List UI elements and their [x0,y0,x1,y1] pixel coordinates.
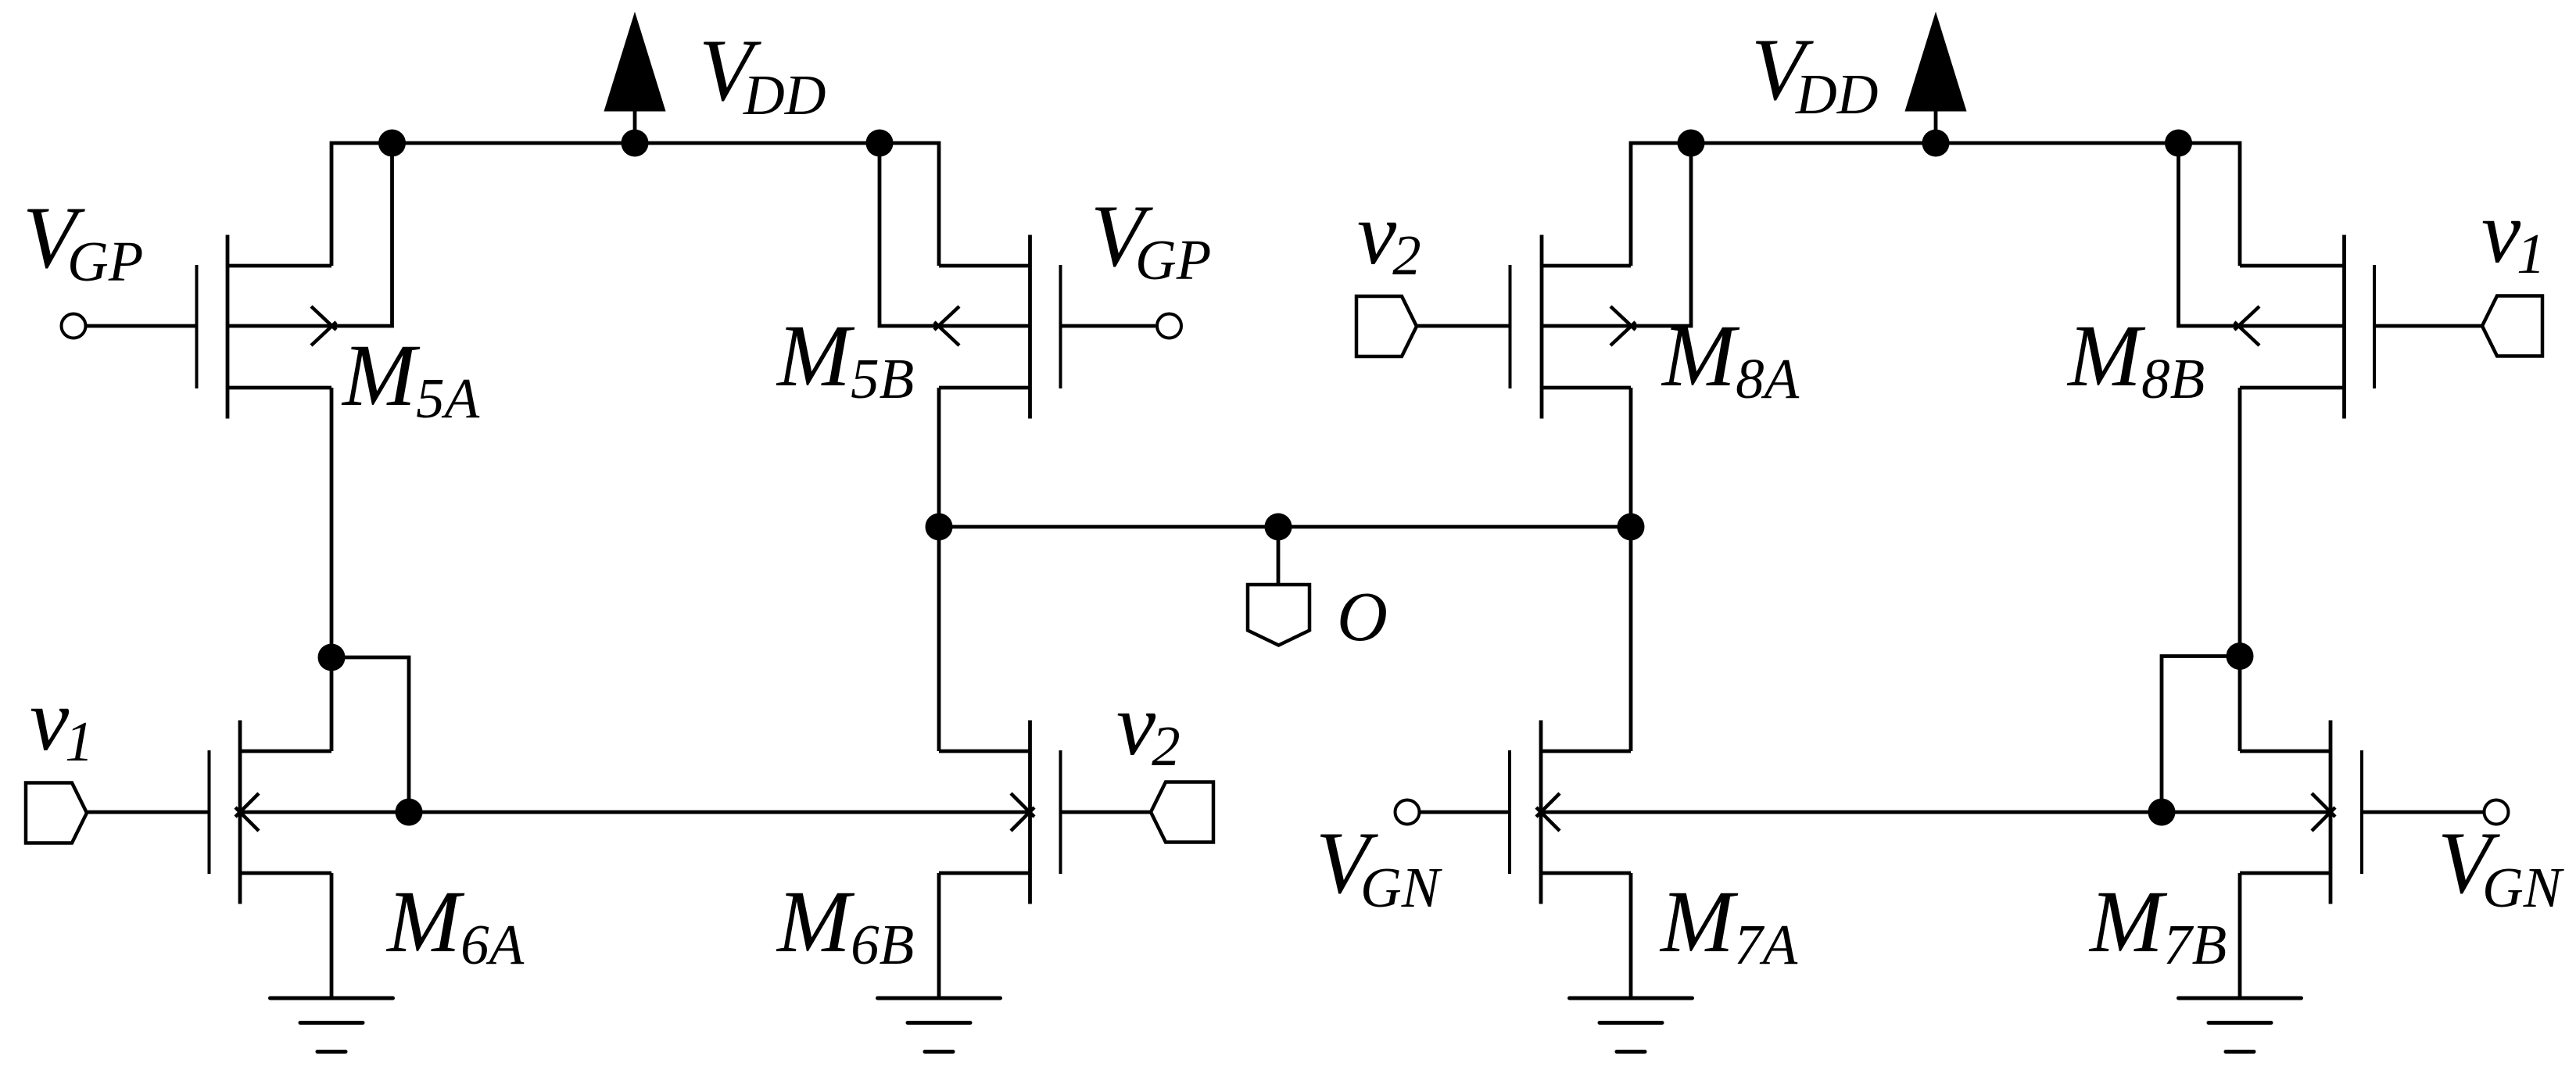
wire M6B gate lead [1061,811,1152,814]
wire M8A source down to output rail [1629,388,1633,527]
junction dot VDD right stem [1922,130,1950,157]
transistor M8A (PMOS) body [1510,235,1632,419]
terminal VGP circle (M5B gate) [1157,314,1181,338]
wire M8B bulk to VDD rail [2179,143,2345,326]
junction dot node A [318,644,346,671]
wire M7A source to ground [1629,873,1633,998]
M8A bulk arrow [1610,306,1636,345]
M7B bulk arrow [2312,793,2335,831]
junction dot M8A bulk at rail [1678,130,1705,157]
wire output stem [1277,527,1281,585]
wire M5B source down to output rail [937,388,941,527]
wire M8B source to M7B drain [2238,388,2242,751]
M6A bulk arrow [235,793,259,831]
wire tap from node B down to gate line [2162,657,2240,813]
M8B bulk arrow [2234,306,2259,345]
wire M7A gate lead [1421,811,1510,814]
wire M6B source to ground [937,873,941,998]
transistor M8B (PMOS) body [2240,235,2374,419]
wire M7B gate lead [2362,811,2483,814]
M5B bulk arrow [934,306,959,345]
transistor M5B (PMOS) body [939,235,1061,419]
wire M8B gate lead [2374,324,2482,328]
wire M6A gate lead [87,811,210,814]
wire M5A gate lead [87,324,197,328]
wire tap from node A down to gate line [331,657,409,812]
junction dot output rail left [926,514,953,541]
svg-text:O: O [1337,578,1388,656]
wire M6A source to ground [330,873,334,998]
transistor M6A (NMOS) body [210,721,332,904]
wire shared bulk line M6A to M6B [240,811,1030,814]
junction dot output rail middle [1265,514,1292,541]
wire M5A bulk to VDD rail [228,143,392,326]
node O pentagon terminal [1248,585,1309,646]
junction dot M5A bulk at rail [378,130,406,157]
terminal VGP circle (M5A gate) [62,314,86,338]
terminal v1 pentagon (M8B gate) [2482,296,2542,356]
wire M7B source to ground [2238,873,2242,998]
junction dot node B [2227,642,2254,670]
wire M5B gate lead [1061,324,1156,328]
junction dot output rail right [1618,514,1645,541]
ground (M6B source) [878,998,1001,1052]
wire M7A drain up to output rail [1629,527,1633,751]
terminal v2 pentagon (M6B gate) [1151,782,1213,843]
junction dot left tap at gate line [396,799,423,826]
ground (M7B source) [2179,998,2302,1052]
ground (M7A source) [1570,998,1693,1052]
transistor M7B (NMOS) body [2240,721,2362,904]
wire M8A gate lead [1417,324,1510,328]
junction dot VDD left stem [622,130,649,157]
M6B bulk arrow [1011,793,1034,831]
wire M6B drain up to output rail [937,527,941,751]
terminal v2 pentagon (M8A gate) [1356,296,1417,356]
wire shared bulk line M7A to M7B [1541,811,2331,814]
transistor M6B (NMOS) body [939,721,1061,904]
wire output rail [939,525,1631,529]
terminal VGN circle (M7A gate) [1395,800,1420,825]
junction dot right tap at gate line [2148,799,2176,826]
power symbol VDD right arrow [1907,16,1965,143]
terminal v1 pentagon (M6A gate) [26,783,87,843]
transistor M5A (PMOS) body [197,235,332,419]
ground (M6A source) [270,998,393,1052]
terminal VGN circle (M7B gate) [2485,800,2509,825]
transistor M7A (NMOS) body [1510,721,1631,904]
junction dot M8B bulk at rail [2165,130,2192,157]
wire M5B bulk to VDD rail [880,143,1030,326]
wire VDD left rail with drain drops to M5A and M5B [331,143,939,266]
M5A bulk arrow [311,306,336,345]
power symbol VDD left arrow [606,16,665,143]
wire M5A source to M6A drain [330,388,334,751]
wire M8A bulk to VDD rail [1542,143,1691,326]
wire VDD right rail with drain drops to M8A and M8B [1631,143,2240,266]
junction dot M5B bulk at rail [866,130,894,157]
M7A bulk arrow [1536,793,1560,831]
